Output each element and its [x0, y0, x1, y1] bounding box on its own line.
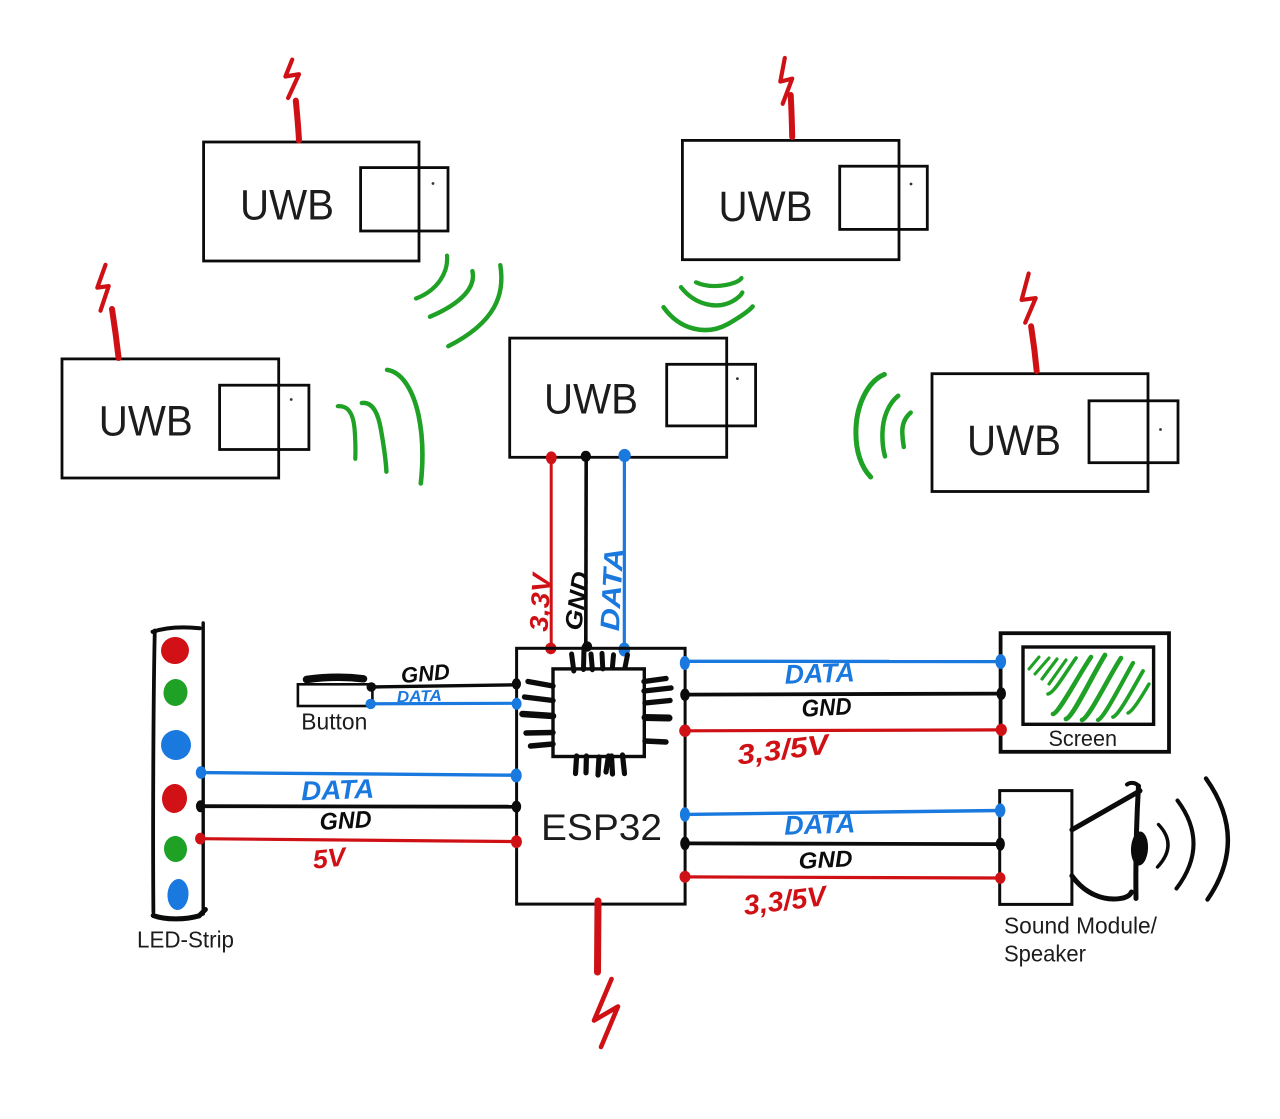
svg-text:Button: Button — [301, 708, 367, 734]
radio waves from A3 toward hub — [338, 370, 423, 484]
LED strip body outline — [153, 623, 206, 919]
node GND at sound module — [996, 838, 1005, 851]
svg-text:ESP32: ESP32 — [541, 807, 662, 848]
node GND at ESP32 left — [512, 678, 521, 689]
node 3,3V at hub — [546, 451, 557, 464]
speaker sound arc large — [1206, 779, 1228, 900]
node GND at button — [367, 682, 377, 692]
svg-text:Speaker: Speaker — [1004, 941, 1086, 967]
ESP32 module box U1 — [517, 648, 686, 904]
node DATA at ESP32 left — [512, 698, 522, 710]
speaker diaphragm — [1136, 786, 1139, 899]
button S1 — [298, 684, 373, 706]
wire GND ESP32 to sound module — [686, 842, 1000, 846]
screen module box — [1001, 633, 1169, 752]
svg-text:DATA: DATA — [595, 547, 629, 631]
speaker horn bottom edge — [1072, 876, 1132, 899]
wire 3,3/5V ESP32 to sound module (red) — [686, 877, 1000, 878]
svg-text:GND: GND — [319, 806, 372, 836]
wire 3,3V hub to ESP32 (red vertical) — [550, 458, 553, 648]
svg-text:UWB: UWB — [99, 398, 193, 446]
node GND at strip — [196, 800, 205, 812]
node GND at ESP32 — [582, 641, 592, 651]
node 3,3/5V at ESP32 right — [680, 871, 691, 883]
svg-text:5V: 5V — [311, 841, 350, 875]
wire 3,3/5V ESP32 to screen (red) — [686, 728, 1001, 732]
node GND at ESP32 right — [680, 837, 690, 851]
node 5V at ESP32 left — [511, 835, 522, 848]
LED 1 red — [159, 635, 190, 666]
antenna lightning A3 — [97, 265, 118, 358]
wire DATA button to ESP32 (blue) — [371, 702, 517, 706]
node 3,3/5V at ESP32 right — [679, 725, 691, 737]
wire GND hub to ESP32 (black vertical) — [584, 457, 588, 646]
LED 2 green — [162, 678, 189, 707]
svg-text:3,3V: 3,3V — [524, 570, 557, 632]
node 5V at strip — [195, 833, 205, 845]
node DATA at ESP32 left — [511, 769, 522, 783]
LED 3 blue — [160, 729, 193, 762]
UWB A2 connector dot — [910, 183, 913, 186]
sound module box — [1000, 791, 1072, 905]
UWB hub module (center, wired to ESP32) — [510, 338, 756, 457]
node DATA at button — [366, 699, 376, 709]
radio waves from A2 toward hub — [664, 278, 753, 330]
node DATA at ESP32 — [619, 643, 631, 657]
power lightning below ESP32 — [594, 901, 618, 1047]
svg-text:GND: GND — [801, 693, 852, 723]
screen green scribble — [1029, 655, 1149, 720]
radio waves from A4 toward hub — [856, 374, 911, 477]
svg-text:DATA: DATA — [784, 808, 856, 840]
node DATA at sound module — [995, 803, 1005, 817]
LED 5 green — [163, 835, 188, 863]
node GND at ESP32 right — [680, 689, 690, 701]
button cap — [307, 677, 364, 679]
UWB A1 connector dot — [432, 182, 435, 185]
LED 6 blue — [166, 878, 189, 910]
node GND at hub — [581, 451, 591, 462]
antenna lightning A4 — [1022, 274, 1037, 372]
node GND at screen — [996, 687, 1006, 700]
antenna lightning A1 — [285, 60, 299, 141]
speaker sound arc medium — [1177, 801, 1194, 889]
wire DATA ESP32 to screen (blue) — [686, 660, 1000, 664]
ESP32 chip pins bottom — [576, 755, 625, 775]
svg-text:DATA: DATA — [301, 774, 375, 807]
wire GND ESP32 to screen — [686, 694, 1001, 695]
speaker horn top edge — [1072, 791, 1140, 830]
speaker diaphragm top hook — [1127, 783, 1139, 786]
wire GND LED strip to ESP32 — [201, 804, 517, 808]
svg-text:GND: GND — [798, 845, 853, 874]
radio waves from A1 toward hub — [416, 256, 501, 347]
wire DATA hub to ESP32 (blue vertical) — [623, 457, 626, 649]
node 3,3/5V at screen — [996, 724, 1007, 736]
svg-text:GND: GND — [400, 659, 451, 688]
antenna lightning A2 — [780, 58, 792, 137]
LED 4 red — [161, 783, 188, 814]
svg-text:UWB: UWB — [544, 376, 638, 424]
UWB anchor module A3 (mid-left) — [62, 359, 309, 478]
UWB anchor module A1 (top-left) — [204, 142, 448, 261]
speaker sound arc small — [1158, 825, 1169, 868]
screen display area — [1023, 647, 1154, 724]
UWB anchor module A2 (top-right) — [682, 140, 927, 259]
node 3,3V at ESP32 — [545, 643, 556, 655]
node DATA at ESP32 right — [680, 807, 690, 821]
svg-text:Sound Module/: Sound Module/ — [1004, 913, 1158, 939]
node DATA at ESP32 right — [680, 656, 690, 670]
ESP32 chip die — [553, 669, 644, 757]
node DATA at hub — [618, 449, 630, 462]
ESP32 chip pins left — [523, 682, 554, 747]
svg-text:UWB: UWB — [967, 417, 1061, 465]
svg-text:UWB: UWB — [719, 183, 813, 231]
UWB A4 connector dot — [1159, 428, 1162, 431]
node GND at ESP32 left — [512, 801, 522, 813]
UWB A3 connector dot — [290, 398, 293, 401]
svg-text:DATA: DATA — [784, 657, 855, 689]
svg-text:Screen: Screen — [1049, 726, 1118, 751]
wire DATA ESP32 to sound module (blue) — [686, 811, 1000, 815]
wire 5V LED strip to ESP32 (red) — [201, 839, 517, 842]
ESP32 chip pins right — [644, 679, 671, 743]
UWB anchor module A4 (mid-right) — [932, 374, 1178, 492]
svg-text:DATA: DATA — [397, 688, 443, 707]
svg-text:LED-Strip: LED-Strip — [137, 927, 234, 953]
UWB hub connector dot — [736, 377, 739, 380]
svg-text:UWB: UWB — [240, 182, 334, 230]
node 3,3/5V at sound module — [995, 872, 1005, 884]
ESP32 chip pins top — [572, 647, 628, 671]
speaker driver blob — [1130, 831, 1149, 866]
wire DATA LED strip to ESP32 (blue) — [201, 773, 517, 776]
wire GND button to ESP32 — [372, 685, 517, 687]
node DATA at strip — [196, 766, 206, 779]
node DATA at screen — [995, 654, 1006, 669]
